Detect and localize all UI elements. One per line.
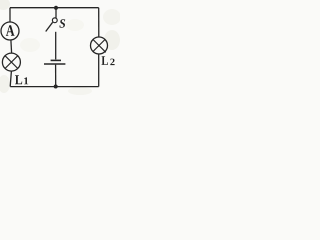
wire left: lamp L1 to bottom corner [10,71,11,87]
wire top-left segment [10,7,56,9]
wire middle: top junction to switch [55,8,57,18]
label L1 [15,75,28,84]
lamp L2 [91,37,108,54]
label L2 [101,56,114,65]
node bottom junction [54,85,58,89]
node top junction [54,6,58,10]
label S [59,19,65,27]
wire bottom-right segment [56,86,99,88]
wire left: ammeter to lamp L1 [10,40,13,53]
lamp L1 [2,53,20,71]
wire right: lamp L2 to bottom corner [98,54,100,87]
wire top-right segment [56,7,99,9]
wire bottom-left segment [10,86,56,88]
wire middle: switch to battery [55,32,57,60]
paper tone (background) [0,0,121,95]
wire middle: battery to bottom junction [55,65,57,87]
ammeter A [1,22,19,40]
wire right: top corner to lamp L2 [98,8,100,38]
switch S [46,18,57,32]
wire left: top corner to ammeter [9,8,11,22]
battery [44,60,65,64]
